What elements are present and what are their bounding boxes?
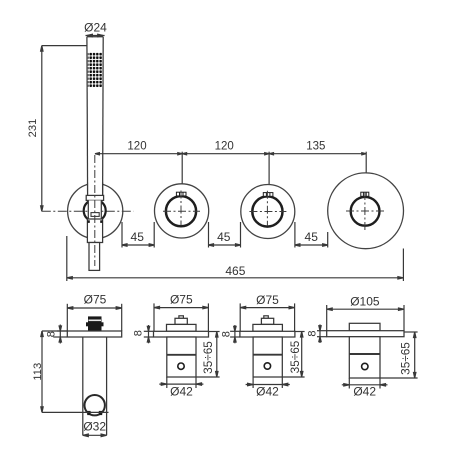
svg-text:Ø105: Ø105 bbox=[350, 294, 380, 308]
svg-text:Ø75: Ø75 bbox=[256, 293, 279, 307]
centerline horizontal C1 bbox=[42, 210, 134, 212]
svg-text:465: 465 bbox=[225, 264, 245, 278]
witness line C2 top bbox=[181, 152, 183, 184]
handshower spray face grid bbox=[88, 52, 102, 87]
svg-text:Ø32: Ø32 bbox=[83, 420, 106, 434]
view3 dim 35÷65 bbox=[282, 332, 304, 378]
view2 dim 35÷65 bbox=[196, 332, 220, 378]
view2 plate bbox=[154, 331, 209, 337]
C4 crosshair bbox=[346, 192, 384, 231]
C3 crosshair bbox=[249, 191, 286, 226]
view1 dim Ø32 bbox=[83, 434, 107, 437]
view2 notch bbox=[179, 316, 184, 319]
svg-text:8: 8 bbox=[133, 330, 145, 336]
dim line 120/120/135 bbox=[95, 153, 366, 155]
circle C4 inner Ø42 bbox=[351, 197, 380, 226]
svg-text:8: 8 bbox=[306, 330, 318, 336]
view2 body bbox=[167, 337, 196, 377]
circle C1 outer (Ø75 escutcheon) bbox=[68, 183, 123, 238]
view3 stem bbox=[261, 318, 273, 324]
handshower handle bbox=[87, 37, 103, 195]
svg-text:8: 8 bbox=[45, 331, 57, 337]
view2 cap bbox=[167, 324, 197, 331]
view1 ball bbox=[85, 395, 105, 415]
view2 stem bbox=[175, 318, 187, 324]
svg-text:Ø24: Ø24 bbox=[84, 21, 107, 35]
svg-text:45: 45 bbox=[217, 230, 231, 244]
svg-text:35÷65: 35÷65 bbox=[201, 341, 215, 374]
circle C3 outer bbox=[241, 185, 295, 239]
view4 dim 8 bbox=[317, 324, 327, 343]
svg-text:120: 120 bbox=[127, 141, 146, 153]
view1 connector (black knurl) bbox=[86, 316, 104, 331]
view3 screw bbox=[264, 363, 270, 369]
view2 dim Ø75 line bbox=[154, 303, 208, 331]
C2 crosshair bbox=[163, 191, 200, 226]
view2 screw bbox=[178, 363, 184, 369]
svg-text:Ø42: Ø42 bbox=[256, 385, 279, 399]
dim 231 vertical line bbox=[41, 46, 43, 212]
view4 plate bbox=[327, 331, 404, 337]
circle C1 holder ball bbox=[84, 200, 106, 222]
view3 dim Ø42 bbox=[246, 377, 290, 388]
view3 dim 8 bbox=[230, 325, 240, 343]
dim 45 c bbox=[295, 222, 328, 248]
view1 plate bbox=[67, 331, 121, 337]
dim 465 bbox=[67, 236, 404, 281]
witness line C4 top bbox=[365, 152, 367, 173]
view4 body bbox=[349, 337, 380, 378]
handshower tail bbox=[89, 243, 100, 271]
circle C4 outer (Ø105) bbox=[328, 173, 404, 249]
view4 cap bbox=[349, 323, 380, 330]
view1 tube bbox=[83, 337, 107, 435]
circle C2 inner Ø42 bbox=[166, 196, 196, 226]
view2 dim Ø42 bbox=[159, 377, 203, 388]
svg-text:135: 135 bbox=[306, 141, 325, 153]
svg-text:35÷65: 35÷65 bbox=[399, 342, 413, 375]
svg-text:45: 45 bbox=[131, 230, 145, 244]
svg-text:Ø42: Ø42 bbox=[170, 385, 193, 399]
svg-text:231: 231 bbox=[27, 119, 39, 138]
holder clamp over handle bbox=[86, 183, 103, 220]
circle C3 inner Ø42 bbox=[252, 196, 282, 226]
svg-text:Ø75: Ø75 bbox=[170, 293, 193, 307]
view3 cap bbox=[253, 324, 283, 331]
circle C2 outer bbox=[155, 184, 209, 238]
view4 dim 35÷65 bbox=[380, 332, 418, 378]
view3 plate bbox=[240, 331, 295, 337]
view1 dim Ø75 line bbox=[67, 304, 121, 331]
svg-text:45: 45 bbox=[305, 230, 319, 244]
svg-text:Ø75: Ø75 bbox=[84, 293, 107, 307]
view4 dim Ø42 bbox=[342, 378, 388, 389]
svg-text:120: 120 bbox=[215, 141, 234, 153]
view1 dim 8 bbox=[53, 325, 67, 344]
holder body below ball bbox=[87, 219, 102, 243]
view1 dim 113 bbox=[41, 331, 109, 412]
centerline vertical handshower bbox=[94, 155, 96, 266]
view3 notch bbox=[264, 316, 269, 319]
C3 tab bbox=[263, 193, 273, 197]
view3 dim Ø75 line bbox=[240, 303, 294, 331]
dim 231 witness top bbox=[42, 45, 87, 47]
dim Ø24 line bbox=[86, 34, 105, 36]
dim 45 a bbox=[122, 222, 154, 248]
view3 body bbox=[253, 337, 282, 377]
svg-text:Ø42: Ø42 bbox=[353, 385, 376, 399]
view2 dim 8 bbox=[144, 325, 154, 343]
dim 45 b bbox=[209, 222, 241, 248]
witness line C3 top bbox=[268, 152, 270, 185]
C2 tab bbox=[176, 192, 186, 196]
view4 screw bbox=[362, 363, 368, 369]
svg-text:113: 113 bbox=[32, 363, 44, 381]
view4 dim Ø105 line bbox=[327, 305, 404, 331]
C4 tab bbox=[361, 192, 369, 196]
svg-text:35÷65: 35÷65 bbox=[288, 340, 302, 373]
svg-text:8: 8 bbox=[220, 331, 232, 337]
